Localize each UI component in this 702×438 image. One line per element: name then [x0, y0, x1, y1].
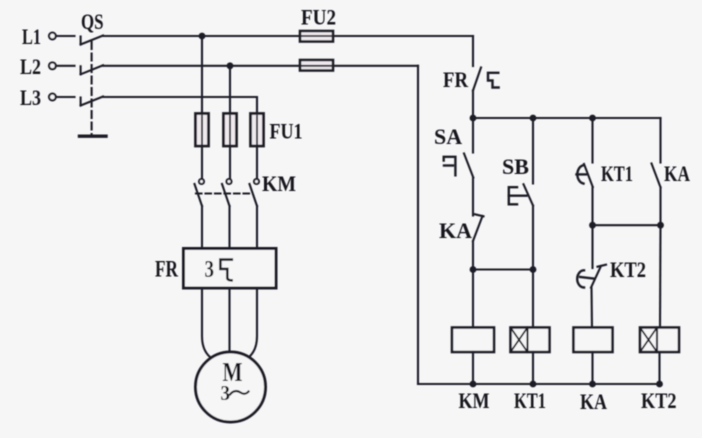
svg-text:KM: KM [262, 171, 296, 196]
node KA-rail (junction dot) [589, 381, 596, 388]
node D (junction dot) [657, 222, 664, 229]
fuse FU1 phase 2 [224, 114, 237, 147]
fuse FU2a [300, 31, 333, 42]
fuse FU2b [300, 60, 333, 71]
relay contact KT2 (NC, delayed) [577, 265, 606, 288]
wire L3 to QS [56, 96, 75, 98]
svg-text:3: 3 [221, 381, 231, 405]
wire rail to SB [532, 118, 534, 184]
svg-text:KT1: KT1 [514, 388, 546, 413]
coil KA [574, 328, 613, 353]
pushbutton SB (NO) [509, 184, 533, 205]
wire FR to motor 2 [228, 288, 230, 351]
svg-text:FR: FR [155, 257, 178, 282]
left control rail [417, 66, 419, 384]
bottom control rail [418, 383, 660, 385]
motor M [196, 352, 266, 422]
svg-text:KA: KA [664, 161, 690, 186]
svg-text:KT2: KT2 [610, 257, 646, 282]
relay contact KT1 (NC, delayed) [577, 164, 593, 187]
wire FU1-1 to KM [201, 146, 203, 179]
relay contact KA (NO, right branch) [652, 164, 661, 188]
svg-text:KT2: KT2 [641, 388, 677, 413]
wire KA contact to node D [659, 187, 661, 225]
switch QS pole 2 [81, 65, 103, 74]
wire KT1 coil to bottom rail [532, 352, 534, 384]
node rail-SB (junction dot) [530, 115, 537, 122]
fuse FU2a wire through [302, 35, 331, 37]
fuse FU2b wire through [302, 65, 331, 67]
svg-text:3: 3 [205, 257, 215, 283]
svg-text:QS: QS [81, 9, 104, 34]
wire KM to FR box 3 [256, 206, 258, 249]
wire KM coil to bottom rail [472, 352, 474, 384]
wire L1 bus [103, 35, 473, 37]
wire KM to FR box 2 [228, 206, 230, 249]
FR heater element symbol [220, 260, 231, 281]
node KT1-rail (junction dot) [530, 381, 537, 388]
wire SB to node B [532, 206, 534, 270]
wire drop to FU1 phase 2 [229, 66, 231, 114]
terminal L1 [22, 24, 56, 49]
terminal L2 [20, 54, 56, 79]
terminal L3 [20, 85, 56, 110]
relay contact FR (NC) [473, 68, 499, 91]
wire node A to node B [473, 268, 533, 270]
wire drop to FU1 phase 1 [201, 36, 203, 114]
node C (junction dot) [589, 222, 596, 229]
wire FR to motor 1 [202, 288, 210, 357]
wire SA to KA contact [472, 178, 474, 216]
node KM-rail (junction dot) [470, 381, 477, 388]
fuse FU1 phase 1 [196, 114, 209, 147]
svg-text:KM: KM [459, 388, 490, 413]
thermal relay FR heater box [184, 249, 277, 289]
svg-text:KA: KA [580, 389, 607, 414]
wire L1 drop to control circuit [472, 36, 474, 66]
node rail-KT1 (junction dot) [589, 115, 596, 122]
wire KT2 contact to KA coil [590, 288, 593, 328]
wire FR to motor 3 [249, 288, 257, 357]
contactor KM main contact 3 [250, 179, 260, 206]
svg-text:L1: L1 [22, 24, 41, 49]
switch SA [444, 154, 474, 178]
wire L2 bus [103, 65, 418, 67]
node KT2-rail (junction dot) [656, 381, 663, 388]
switch QS pole 3 [81, 97, 103, 106]
contactor KM main contact 1 [195, 179, 205, 206]
wire KA coil to bottom rail [591, 352, 593, 384]
wire KT2 coil to bottom rail [658, 352, 660, 384]
wire L2 to QS [56, 65, 75, 67]
node rail-SA (junction dot) [470, 115, 477, 122]
svg-text:KA: KA [439, 218, 472, 243]
svg-text:FU2: FU2 [301, 5, 336, 30]
wire rail corner to KA contact [659, 118, 661, 163]
wire node C to KT2 contact [591, 225, 593, 268]
wire rail to KT1 contact [591, 118, 593, 163]
wire node A to KM coil [472, 270, 474, 328]
wire node D to KT2 coil [659, 225, 662, 327]
wire FU1-3 to KM [256, 146, 258, 179]
wire FU1-2 to KM [229, 146, 231, 179]
wire L3 bus [103, 97, 257, 114]
node A (junction dot) [470, 266, 477, 273]
wire KT1 contact to node C [591, 187, 593, 225]
node on L1 (junction dot) [199, 33, 206, 40]
KM link (dashed) [196, 192, 251, 194]
coil KT1 (time relay) [511, 328, 550, 353]
svg-text:FU1: FU1 [270, 119, 303, 144]
coil KT2 (time relay) [640, 328, 679, 353]
node B (junction dot) [530, 266, 537, 273]
wire FR contact to rail [472, 91, 474, 119]
coil KM [452, 328, 494, 353]
QS handle bar [80, 134, 107, 137]
svg-text:SB: SB [502, 154, 529, 179]
wire node B to KT1 coil [532, 270, 534, 328]
wire rail to SA [472, 118, 474, 153]
svg-text:L2: L2 [20, 54, 41, 79]
svg-text:SA: SA [434, 124, 462, 149]
svg-text:FR: FR [443, 67, 469, 92]
wire node C to node D [593, 224, 661, 226]
wire L1 to QS [56, 35, 75, 37]
svg-text:KT1: KT1 [601, 161, 633, 186]
contactor KM main contact 2 [222, 179, 232, 206]
QS mechanical link (dashed) [91, 42, 93, 135]
wire KA contact to node [472, 241, 474, 270]
fuse FU1 phase 3 [251, 114, 264, 147]
switch QS pole 1 [81, 36, 103, 45]
svg-text:L3: L3 [20, 85, 41, 110]
node on L2 (junction dot) [227, 62, 234, 69]
wire KM to FR box 1 [201, 206, 203, 249]
control rail top [473, 117, 661, 119]
relay contact KA (NO, in SA branch) [473, 214, 484, 241]
